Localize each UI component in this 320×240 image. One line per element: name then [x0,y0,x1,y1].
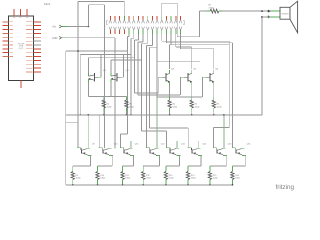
wire fan k10 column to bottom cell4 collector [156,97,158,148]
svg-text:a: a [105,28,106,30]
J1 pin 13 [165,16,167,20]
U1 left pin 4 [3,32,9,34]
collector column Q9 [87,115,89,149]
wire k0 feed long vertical x78 [77,2,79,148]
IC U1 body [9,16,34,81]
J1 pin 7 [137,16,139,20]
wire Q2 collector feed [88,58,90,73]
J2 pin 9 [146,27,149,31]
wire GND flag to bus [67,37,115,39]
resistor R9 [72,166,74,172]
wire Q11 emitter return [132,155,134,166]
wire J1 pin12 to R1 route [161,3,163,16]
wire speaker return [262,16,270,18]
wire middle GND bus y114.8 [66,114,262,116]
wire fan k12 right stair to cell8 feed [165,34,167,43]
wire Q3 collector feed [110,60,112,73]
wire curtain c3 to Q5 base post [138,94,180,96]
svg-text:(DIP): (DIP) [19,48,24,50]
collector column Q15 [223,115,225,149]
J1 pin 15 [175,16,177,20]
wire base feed Q14 [187,128,189,148]
U1 left pin 10 [3,56,9,58]
speaker SP1 body [280,7,290,19]
U1 right pin 9 [34,52,42,54]
wire fan k13 to Q4 collector and right column [170,34,172,45]
transistor Q12 [146,147,150,149]
J2 pin 12 [160,27,163,31]
wire base feed Q10 [98,115,100,148]
transistor Q13 [166,147,170,149]
J1 pin 1 [109,16,111,20]
U1 left pin 3 [3,29,9,31]
J2 pin 14 [170,27,173,31]
svg-text:GND: GND [52,37,58,40]
svg-text:fritzing: fritzing [276,184,295,191]
J1 pin 4 [123,16,125,20]
U1 left pin 7 [3,44,9,46]
svg-text:10kΩ: 10kΩ [191,178,196,180]
svg-text:10kΩ: 10kΩ [76,178,81,180]
J1 pin 11 [156,16,158,20]
J1 pin 9 [147,16,149,20]
svg-text:Part1: Part1 [44,2,51,6]
U1 right pin 6 [34,40,42,42]
svg-text:220Ω: 220Ω [209,7,215,9]
resistor R4 [169,97,171,101]
wire fan k11 right stair to cell7 feed [161,34,163,41]
U1 right pin 11 [34,59,42,61]
transistor Q14 [188,147,192,149]
collector stub Q11 [130,141,132,149]
wire left rail branch y122.3 [66,121,78,123]
U1 left pin 1 [3,21,9,23]
svg-text:10kΩ: 10kΩ [146,178,151,180]
transistor Q3 [110,73,112,76]
J2 pin 13 [165,27,168,31]
J2 pin 2 [114,27,117,31]
J2 pin 3 [118,27,121,31]
resistor R6 [213,97,215,101]
speaker pin2 [268,16,270,18]
svg-text:10kΩ: 10kΩ [107,106,112,108]
J2 pin 5 [128,27,131,31]
wire fan k9 to curtain 5 [151,34,153,45]
wire bus vertical x88.5 [88,5,90,27]
wire Q12 emitter return [158,155,160,166]
transistor Q15 [213,147,217,149]
J1 pin 5 [128,16,130,20]
resistor R10 [97,166,99,172]
svg-text:10kΩ: 10kΩ [100,178,105,180]
wire Q13 emitter return [179,155,181,166]
transistor Q6 [202,77,204,97]
wire fan k7 to curtain 3 [142,34,144,42]
resistor R5 [191,97,193,101]
wire fan k8 to curtain 4 [147,34,149,44]
J2 pin 8 [142,27,145,31]
J1 pin 8 [142,16,144,20]
wire Q2 base feed [100,55,102,78]
transistor Q2 [88,73,90,76]
wire Q4 emitter to R4 [169,85,171,96]
wire base feed Q15 [212,128,214,148]
svg-text:10kΩ: 10kΩ [129,106,134,108]
svg-text:10kΩ: 10kΩ [235,178,240,180]
wire base feed Q13 [166,131,168,148]
J1 pin 14 [170,16,172,20]
J1 pin 2 [114,16,116,20]
wire +5v flag to bus [67,26,89,28]
wire h y61.2 filler [157,60,200,62]
collector stub Q13 [176,141,178,149]
U1 right pin 7 [34,44,42,46]
U1 right pin 4 [34,32,42,34]
J2 pin 1 [109,27,112,31]
speaker cone [290,1,298,33]
U1 left pin 8 [3,48,9,50]
J2 pin 4 [123,27,126,31]
wire bus top y1.5 [78,1,124,3]
wire fan k14 to Q5 collector [175,34,177,47]
U1 bottom pin [20,80,22,88]
curtain c1 junction on mid bus [130,114,132,116]
wire Q9 emitter return [90,155,92,166]
wire curtain c0 to cell3 feed [121,133,128,135]
J2 pin 16 [179,27,182,31]
transistor Q4 [157,77,159,93]
J2 pin 10 [151,27,154,31]
wire fan k5 to curtain 1 [133,34,135,38]
wire k1 feed long vertical x104.6 [104,5,106,148]
wire Q16 emitter return [244,155,246,166]
U1 right pin 5 [34,36,42,38]
wire fan k4 to curtain 0 [128,34,130,36]
transistor Q11 [120,147,124,149]
resistor R1 [207,10,211,12]
svg-text:10kΩ: 10kΩ [195,106,200,108]
wire curtain c2 to Q4 base post [135,92,159,94]
U1 right pin 14 [34,71,42,73]
J2 pin 11 [156,27,159,31]
wire fan k6 to curtain 2 [137,34,139,40]
J1 pin 3 [119,16,121,20]
U1 left pin 9 [3,52,9,54]
wire Q2 emitter to R2 [88,82,90,96]
U1 top pin 2 [20,9,22,16]
U1 right pin 13 [34,67,42,69]
U1 right pin 8 [34,48,42,50]
U1 right pin 1 [34,21,42,23]
resistor R12 [142,166,144,172]
wire fan k10 to curtain 6 [156,34,158,47]
wire left GND rail x65.8 [65,51,67,185]
wire h y51 [66,50,128,52]
wire Q6 emitter to R6 [213,85,215,96]
resistor R16 [231,166,233,172]
resistor R11 [122,166,124,172]
wire bottom bus [66,184,233,186]
J2 pin 7 [137,27,140,31]
wire Q3 base feed [123,55,125,78]
wire Q3 emitter to R3 [110,82,112,96]
svg-text:10kΩ: 10kΩ [125,178,130,180]
J1 pin 16 [180,16,182,20]
speaker pin1 [268,10,270,12]
transistor Q16 [232,147,236,149]
wire drop to J1 pin4 [123,2,125,16]
U1 right pin 3 [34,29,42,31]
wire Q14 emitter return [200,155,202,166]
U1 left pin 2 [3,25,9,27]
resistor R14 [187,166,189,172]
resistor R3 [125,97,127,101]
collector stub Q14 [198,141,200,149]
U1 right pin 10 [34,56,42,58]
resistor R15 [209,166,211,172]
wire curtain c4 to cell5 feed [142,130,167,132]
transistor Q5 [179,77,181,95]
U1 left pin 5 [3,36,9,38]
svg-text:10kΩ: 10kΩ [169,178,174,180]
U1 top pin 1 [13,9,15,16]
resistor R2 [103,97,105,101]
U1 right pin 12 [34,63,42,65]
transistor Q9 [77,147,81,149]
U1 right pin 2 [34,25,42,27]
U1 left pin 6 [3,40,9,42]
svg-text:a: a [105,25,106,27]
J2 pin 15 [174,27,177,31]
svg-text:10kΩ: 10kΩ [217,106,222,108]
J2 pin 6 [132,27,135,31]
wire Q5 emitter to R5 [191,85,193,96]
svg-text:10kΩ: 10kΩ [172,106,177,108]
svg-text:10kΩ: 10kΩ [213,178,218,180]
wire curtain c6 to cell6 feed [149,127,188,129]
J1 pin 6 [133,16,135,20]
wire bus top y4.8 [89,4,105,6]
wire base feed Q11 [120,134,122,148]
J1 pin 12 [161,16,163,20]
J1 pin 10 [151,16,153,20]
resistor R13 [165,166,167,172]
wire R1 to speaker [222,10,270,12]
wire h y54.5 [80,54,131,56]
wire Q10 emitter return [111,155,113,166]
wire Q15 emitter return [225,155,227,166]
J1 end brackets [107,21,108,25]
wire fan k15 to Q6 collector [180,34,182,49]
transistor Q10 [99,147,103,149]
U1 top pin 3 [26,9,28,16]
wire fan k10 to Q6 base post [156,34,158,97]
